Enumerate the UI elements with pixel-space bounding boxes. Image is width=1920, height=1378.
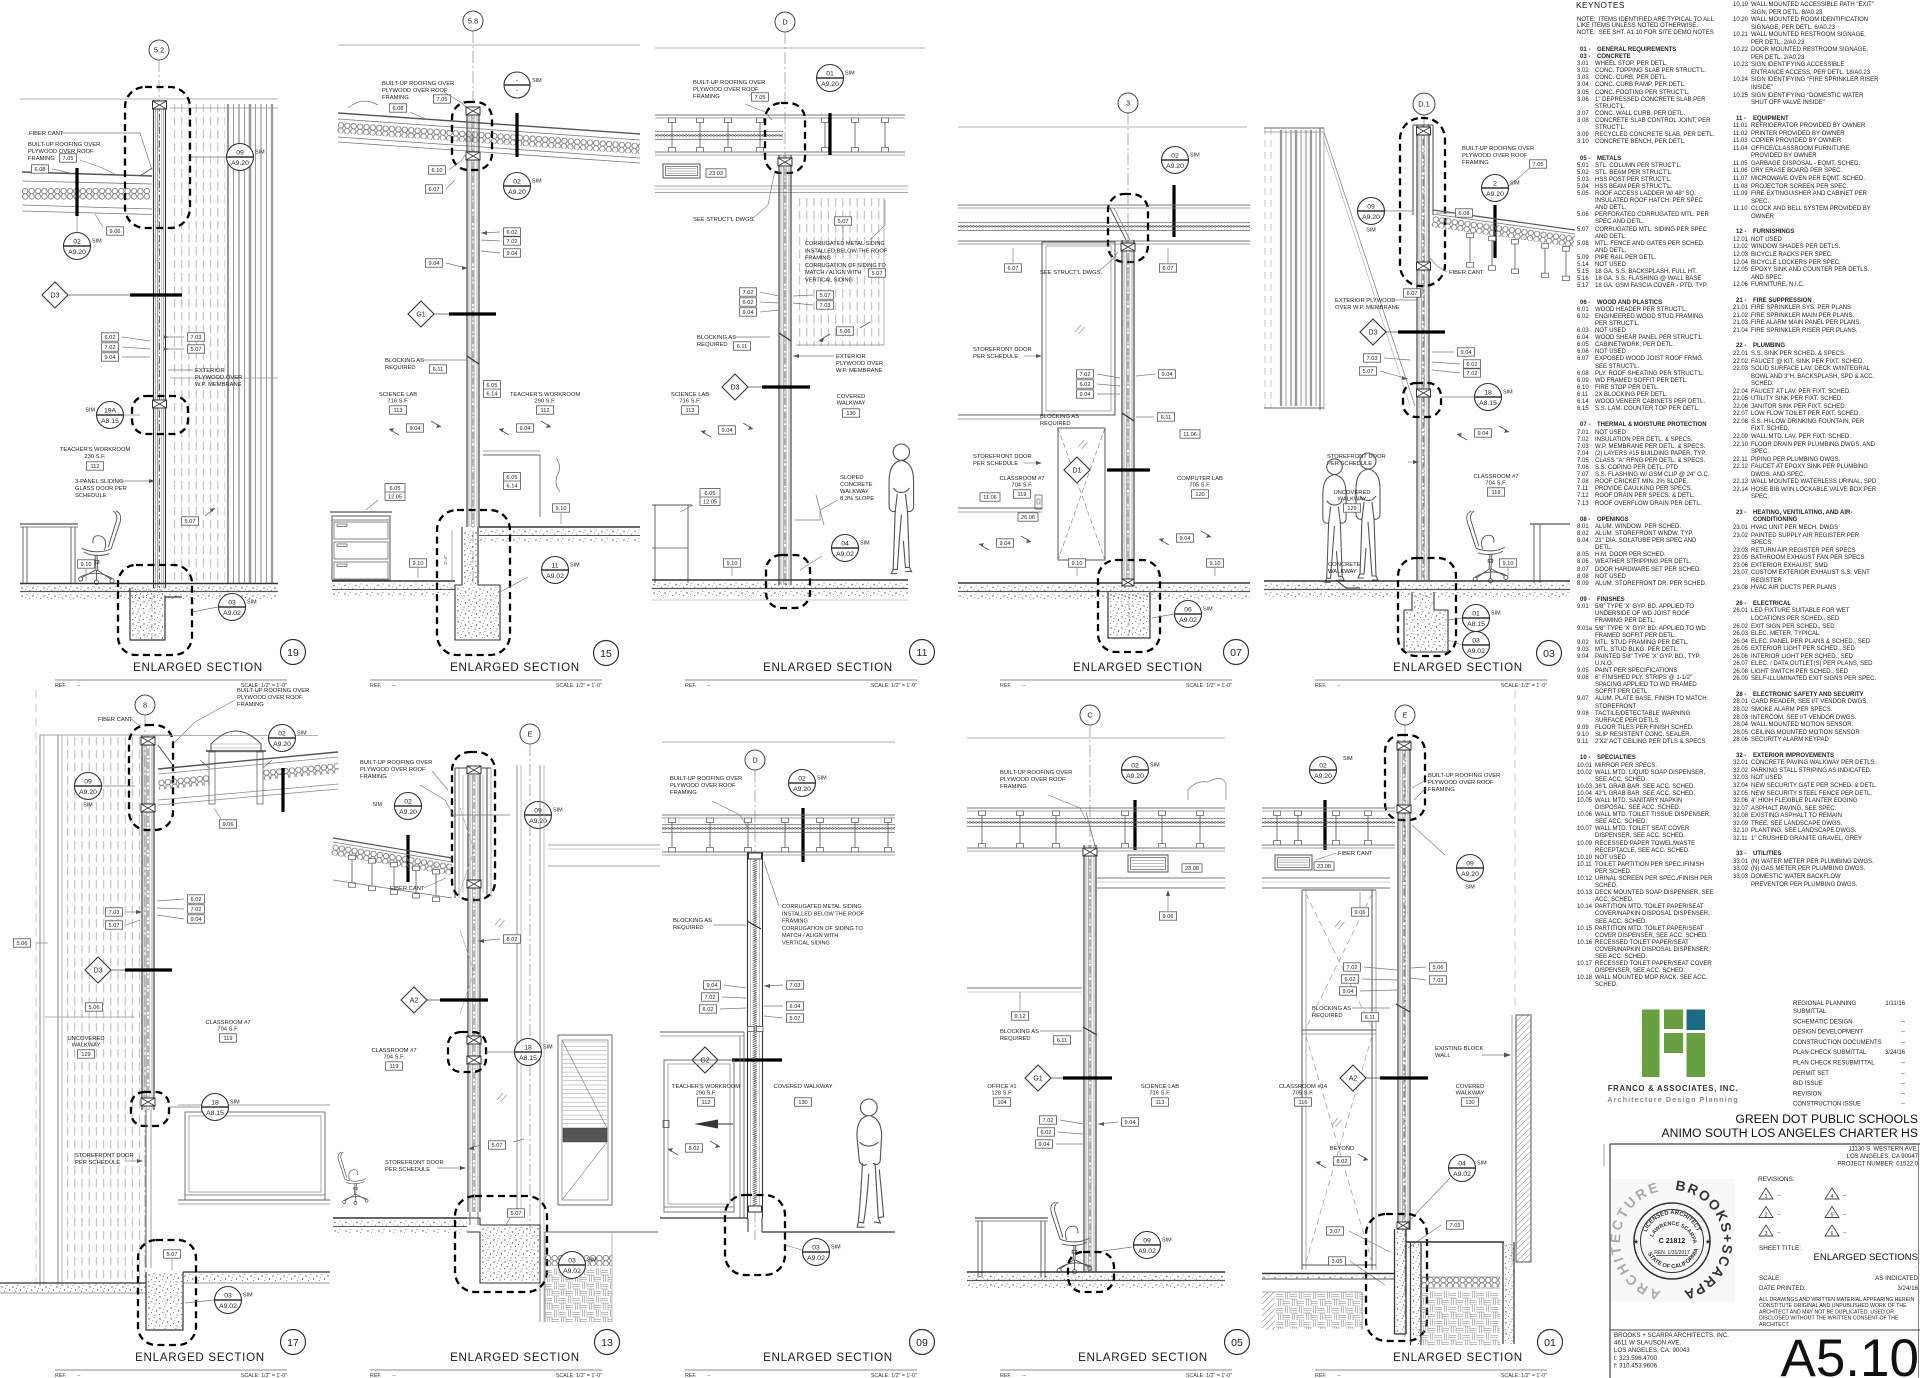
svg-text:ENLARGED SECTION: ENLARGED SECTION xyxy=(133,661,263,674)
svg-text:SIM: SIM xyxy=(831,1245,841,1251)
svg-text:--: -- xyxy=(1777,1193,1781,1199)
detail 17 beam tick xyxy=(281,768,284,812)
detail 01 section cut A2 xyxy=(1340,1065,1428,1091)
svg-text:UNCOVERED: UNCOVERED xyxy=(1333,490,1370,496)
detail 07 finish arrows xyxy=(979,531,1211,550)
detail 11 siding panel xyxy=(796,198,884,346)
svg-text:AS INDICATED: AS INDICATED xyxy=(1875,1275,1918,1282)
detail 05 mullion xyxy=(1083,812,1097,1272)
svg-text:9.06: 9.06 xyxy=(223,822,234,828)
detail 15 mullion xyxy=(466,107,480,527)
detail 01 block wall xyxy=(1512,1015,1531,1262)
svg-text:5.07: 5.07 xyxy=(185,519,196,525)
svg-text:ENLARGED SECTION: ENLARGED SECTION xyxy=(1393,1351,1523,1364)
svg-text:REQUIRED: REQUIRED xyxy=(1040,421,1071,427)
svg-text:01: 01 xyxy=(1472,610,1480,617)
svg-text:REQUIRED: REQUIRED xyxy=(1312,1013,1343,1019)
svg-text:INSTALLED BELOW THE ROOF: INSTALLED BELOW THE ROOF xyxy=(782,911,865,917)
detail 05 soffit xyxy=(1097,878,1225,888)
Franco & Associates logo xyxy=(1642,1010,1705,1078)
detail 17 door label xyxy=(75,1153,143,1166)
svg-text:--: -- xyxy=(1901,1102,1905,1108)
detail 17 right room xyxy=(178,1105,330,1204)
detail 19 callout 02/A9.20 xyxy=(64,216,103,260)
svg-text:5.07: 5.07 xyxy=(167,1252,178,1258)
svg-text:9.04: 9.04 xyxy=(707,983,718,989)
svg-text:130: 130 xyxy=(846,411,855,417)
svg-text:D.1: D.1 xyxy=(1418,100,1430,109)
detail 09 section cut G2 xyxy=(692,1047,782,1073)
svg-text:02: 02 xyxy=(1131,762,1139,769)
detail 19 room label xyxy=(60,447,131,470)
detail 03 grid bubble D.1 xyxy=(1413,93,1435,580)
svg-text:--: -- xyxy=(1901,1040,1905,1046)
detail 19 grid bubble 5.2 xyxy=(149,40,169,585)
detail 17 section cut D3 xyxy=(85,957,172,983)
detail 17 room label xyxy=(205,1020,250,1042)
svg-text:230 S.F.: 230 S.F. xyxy=(84,454,106,460)
detail 15 beam tick xyxy=(515,113,518,157)
detail 19 door label xyxy=(75,479,155,499)
svg-text:FRAMING: FRAMING xyxy=(28,156,55,162)
detail 17 footing dashed callout xyxy=(138,1240,196,1345)
svg-text:SHEET TITLE:: SHEET TITLE: xyxy=(1759,1245,1801,1252)
detail 11 room labels xyxy=(671,392,866,417)
svg-text:--: -- xyxy=(1901,1061,1905,1067)
svg-text:6.02: 6.02 xyxy=(1080,382,1091,388)
detail 15 roof assembly xyxy=(337,101,640,163)
detail 09 siding label xyxy=(764,862,865,947)
svg-text:INSTALLED BELOW THE ROOF: INSTALLED BELOW THE ROOF xyxy=(805,248,888,254)
svg-text:6.08: 6.08 xyxy=(35,167,46,173)
svg-text:A8.15: A8.15 xyxy=(1479,400,1497,407)
svg-text:5: 5 xyxy=(1831,1213,1834,1219)
detail 03 glazing diagonal xyxy=(1324,132,1415,406)
svg-text:705 S.F.: 705 S.F. xyxy=(1189,483,1211,489)
svg-text:W.P. MEMBRANE: W.P. MEMBRANE xyxy=(195,382,242,388)
detail 05 room labels xyxy=(987,1084,1179,1106)
detail 07 door label upper xyxy=(973,347,1042,360)
detail 13 callout 09/A9.20 xyxy=(452,802,563,829)
detail 09 box 8.02 xyxy=(668,1141,720,1155)
detail 03 title xyxy=(1315,641,1562,690)
detail 07 top line xyxy=(958,126,1247,128)
svg-text:BUILT-UP ROOFING OVER: BUILT-UP ROOFING OVER xyxy=(237,688,309,694)
svg-text:A9.02: A9.02 xyxy=(1453,1171,1471,1178)
revision triangles xyxy=(1758,1176,1847,1237)
svg-text:6.11: 6.11 xyxy=(433,367,443,373)
svg-text:SCALE: 1/2" = 1'-0": SCALE: 1/2" = 1'-0" xyxy=(1186,683,1232,689)
detail 17 walkway label xyxy=(67,1036,104,1058)
svg-text:119: 119 xyxy=(1018,492,1027,498)
svg-text:716 S.F.: 716 S.F. xyxy=(387,399,409,405)
detail 07 footing xyxy=(1108,592,1150,638)
detail 15 box 9.04 left xyxy=(426,259,469,270)
svg-text:5.07: 5.07 xyxy=(191,347,202,353)
detail 17 callout 09/A9.20 xyxy=(75,773,136,809)
svg-text:02: 02 xyxy=(798,775,806,782)
svg-text:9.04: 9.04 xyxy=(410,426,421,432)
svg-text:11: 11 xyxy=(551,562,558,569)
svg-text:7.03: 7.03 xyxy=(1450,1223,1461,1229)
svg-text:COMPUTER LAB: COMPUTER LAB xyxy=(1177,476,1223,482)
svg-text:MATCH / ALIGN WITH: MATCH / ALIGN WITH xyxy=(782,933,838,939)
svg-text:ENLARGED SECTION: ENLARGED SECTION xyxy=(763,661,893,674)
svg-text:104: 104 xyxy=(997,1100,1006,1106)
detail 07 boxes mid xyxy=(1077,370,1176,398)
svg-text:ENLARGED SECTION: ENLARGED SECTION xyxy=(1393,661,1523,674)
detail 01 roof deck xyxy=(1262,808,1395,848)
svg-text:9.06: 9.06 xyxy=(1355,910,1366,916)
svg-text:19A: 19A xyxy=(104,407,117,414)
svg-text:9.04: 9.04 xyxy=(1080,392,1091,398)
detail 15 room labels xyxy=(379,392,581,414)
svg-text:11.06: 11.06 xyxy=(983,495,997,501)
detail 01 floor left xyxy=(1262,1274,1394,1331)
svg-text:9.10: 9.10 xyxy=(1503,561,1514,567)
svg-text:BUILT-UP ROOFING OVER: BUILT-UP ROOFING OVER xyxy=(670,776,742,782)
svg-text:SIM: SIM xyxy=(92,239,102,245)
svg-text:PLAN CHECK SUBMITTAL: PLAN CHECK SUBMITTAL xyxy=(1793,1050,1867,1056)
svg-text:6.14: 6.14 xyxy=(507,483,518,489)
svg-text:5.07: 5.07 xyxy=(511,1211,522,1217)
svg-text:--: -- xyxy=(392,683,396,689)
detail 07 lower door xyxy=(1058,428,1105,560)
svg-text:WALKWAY: WALKWAY xyxy=(72,1043,101,1049)
svg-text:6: 6 xyxy=(1831,1231,1834,1237)
svg-text:REF.: REF. xyxy=(685,1373,696,1378)
detail 15 box 6.05/6.14 xyxy=(484,381,501,398)
svg-text:PLAN CHECK RESUBMITTAL: PLAN CHECK RESUBMITTAL xyxy=(1793,1061,1875,1067)
svg-text:SIM: SIM xyxy=(1491,611,1501,617)
svg-text:A9.02: A9.02 xyxy=(836,551,854,558)
detail 17 boxes left xyxy=(106,908,143,929)
svg-text:ARCHITECT.: ARCHITECT. xyxy=(1759,1322,1790,1328)
detail 17 title xyxy=(55,1330,306,1378)
detail 05 blocking label xyxy=(1000,1027,1097,1044)
svg-text:--: -- xyxy=(392,1373,396,1378)
svg-text:5.06: 5.06 xyxy=(17,941,28,947)
svg-text:MATCH / ALIGN WITH: MATCH / ALIGN WITH xyxy=(805,270,861,276)
svg-text:--: -- xyxy=(1914,1265,1918,1271)
svg-text:G1: G1 xyxy=(416,311,425,318)
svg-text:BID ISSUE: BID ISSUE xyxy=(1793,1081,1823,1087)
svg-text:A8.15: A8.15 xyxy=(101,418,119,425)
detail 03 callout 01/A8.15 xyxy=(1448,605,1501,632)
detail 11 callout 04/A9.02 xyxy=(800,535,870,571)
svg-text:11.06: 11.06 xyxy=(1183,432,1197,438)
svg-text:05: 05 xyxy=(1231,1337,1243,1349)
svg-text:129: 129 xyxy=(81,1052,90,1058)
svg-text:BLOCKING AS: BLOCKING AS xyxy=(1312,1006,1351,1012)
svg-text:06: 06 xyxy=(1184,606,1192,613)
detail 13 glass marks xyxy=(495,918,507,1102)
detail 09 floors xyxy=(660,1218,895,1232)
svg-text:-: - xyxy=(516,87,518,94)
detail 17 floor right xyxy=(183,1272,330,1283)
detail 05 box 9.12 xyxy=(1012,996,1029,1020)
svg-text:FRAMING: FRAMING xyxy=(1462,160,1489,166)
svg-text:2: 2 xyxy=(1493,180,1497,187)
detail 15 box 6.05/6.14 lower xyxy=(504,473,521,490)
svg-text:D: D xyxy=(752,756,757,765)
detail 01 callout 02/A9.20 xyxy=(1310,756,1354,850)
svg-text:PER SCHEDULE: PER SCHEDULE xyxy=(973,354,1018,360)
svg-text:FIBER CANT: FIBER CANT xyxy=(98,717,133,723)
detail 17 callout 02/A9.20 xyxy=(269,725,308,752)
svg-text:1/11/16: 1/11/16 xyxy=(1885,1001,1905,1007)
detail 01 beyond label xyxy=(1316,1146,1368,1168)
svg-text:D3: D3 xyxy=(51,292,60,299)
svg-text:REF.: REF. xyxy=(1000,1373,1011,1378)
svg-text:SIM: SIM xyxy=(1465,885,1475,891)
svg-text:9.04: 9.04 xyxy=(1039,1142,1050,1148)
svg-text:01: 01 xyxy=(826,70,834,77)
svg-text:A9.20: A9.20 xyxy=(68,249,86,256)
detail 15 section cut G1 xyxy=(408,301,496,327)
svg-text:REF.: REF. xyxy=(370,1373,381,1378)
svg-text:★: ★ xyxy=(1705,1238,1711,1246)
svg-text:A9.20: A9.20 xyxy=(1486,191,1504,198)
detail 19 footing xyxy=(130,588,182,640)
detail 11 soffit lines xyxy=(655,186,908,193)
svg-text:112: 112 xyxy=(702,1100,711,1106)
svg-text:--: -- xyxy=(1901,1030,1905,1036)
svg-text:REF.: REF. xyxy=(55,1373,66,1378)
svg-text:C 21812: C 21812 xyxy=(1659,1238,1686,1245)
svg-text:REF.: REF. xyxy=(370,683,381,689)
svg-text:BUILT-UP ROOFING OVER: BUILT-UP ROOFING OVER xyxy=(382,81,454,87)
detail 15 roofing label xyxy=(382,81,470,120)
detail 13 roofing label xyxy=(360,760,455,818)
detail 11 section cut D3 xyxy=(722,374,810,400)
svg-text:A9.02: A9.02 xyxy=(223,610,241,617)
svg-text:11: 11 xyxy=(917,647,928,659)
svg-text:A9.20: A9.20 xyxy=(1362,214,1380,221)
svg-text:A9.20: A9.20 xyxy=(231,160,249,167)
sheet title xyxy=(1759,1245,1918,1271)
svg-text:EXTERIOR: EXTERIOR xyxy=(836,354,866,360)
svg-text:SIM: SIM xyxy=(1477,1161,1487,1167)
detail 15 sim circle xyxy=(504,72,542,98)
svg-text:GREEN DOT PUBLIC SCHOOLS: GREEN DOT PUBLIC SCHOOLS xyxy=(1735,1112,1918,1126)
svg-text:112: 112 xyxy=(91,464,100,470)
svg-text:6.08: 6.08 xyxy=(1459,211,1470,217)
svg-text:BLOCKING AS: BLOCKING AS xyxy=(385,358,424,364)
detail 13 grid bubble E xyxy=(520,724,540,1230)
detail 01 blocking label xyxy=(1312,1004,1410,1021)
svg-text:6.05: 6.05 xyxy=(705,491,716,497)
svg-text:REVISIONS:: REVISIONS: xyxy=(1758,1176,1795,1183)
svg-text:09: 09 xyxy=(236,149,244,156)
svg-text:9.04: 9.04 xyxy=(1162,372,1173,378)
detail 19 box 5.07 walkway xyxy=(182,508,216,525)
svg-text:REF.: REF. xyxy=(685,683,696,689)
svg-text:5.2: 5.2 xyxy=(154,46,164,55)
detail 15 boxes right xyxy=(481,228,521,257)
svg-text:3: 3 xyxy=(1765,1231,1768,1237)
detail 05 grid bubble C xyxy=(1080,705,1100,1270)
svg-text:3-PANEL SLIDING: 3-PANEL SLIDING xyxy=(75,479,124,485)
detail 03 callout 2/A9.20 xyxy=(1482,175,1521,259)
svg-text:SIM: SIM xyxy=(532,179,542,185)
detail 13 right wall beyond xyxy=(517,765,660,1322)
svg-text:D3: D3 xyxy=(731,384,740,391)
detail 17 boxes right xyxy=(157,895,205,923)
detail 09 callout 03/A9.02 xyxy=(785,1239,841,1266)
detail 07 title xyxy=(1000,640,1249,690)
detail 07 boxes 6.07 xyxy=(1005,248,1177,272)
detail 09 mullion corr xyxy=(748,852,763,1218)
svg-text:9.06: 9.06 xyxy=(1163,914,1174,920)
detail 15 floor right xyxy=(479,527,640,542)
detail 11 roofing label xyxy=(693,80,772,120)
svg-text:--: -- xyxy=(1843,1193,1847,1199)
detail 01 title xyxy=(1315,1330,1563,1378)
svg-text:SCHEDULE: SCHEDULE xyxy=(75,493,107,499)
detail 17 box 5.06 left xyxy=(14,939,49,947)
svg-text:6.14: 6.14 xyxy=(487,391,498,397)
detail 13 callout 02/A9.20 xyxy=(372,793,421,883)
detail 15 title xyxy=(370,641,619,690)
svg-text:7.02: 7.02 xyxy=(705,995,716,1001)
svg-text:BLOCKING AS: BLOCKING AS xyxy=(697,335,736,341)
detail 17 top line xyxy=(145,735,318,737)
detail 19 mullion xyxy=(153,100,167,588)
svg-text:130: 130 xyxy=(1465,1100,1474,1106)
detail 07 callout 02/A9.20 xyxy=(1162,147,1201,238)
detail 07 callout 06/A9.02 xyxy=(1152,601,1213,628)
svg-text:9.04: 9.04 xyxy=(1478,431,1489,437)
svg-text:A9.02: A9.02 xyxy=(546,573,564,580)
detail 01 boxes xyxy=(1340,963,1447,995)
detail 11 top dashed callout xyxy=(765,103,805,173)
svg-text:--: -- xyxy=(1337,1373,1341,1378)
detail 13 right soil xyxy=(545,1232,658,1322)
svg-text:FRAMING: FRAMING xyxy=(382,95,409,101)
svg-text:CORRUGATED METAL SIDING: CORRUGATED METAL SIDING xyxy=(805,241,885,247)
svg-text:7.02: 7.02 xyxy=(507,239,518,245)
svg-text:FRAMING: FRAMING xyxy=(782,919,808,925)
detail 17 callout 03/A9.02 xyxy=(185,1287,253,1314)
svg-text:--: -- xyxy=(1901,1081,1905,1087)
svg-text:--: -- xyxy=(707,683,711,689)
svg-text:--: -- xyxy=(707,1373,711,1378)
svg-text:7.03: 7.03 xyxy=(109,910,120,916)
detail 17 roofing label xyxy=(172,688,309,745)
keynotes heading xyxy=(1576,0,1625,10)
detail 05 callout 09/A9.02 xyxy=(1096,1232,1172,1259)
svg-text:CORRUGATION OF SIDING TO: CORRUGATION OF SIDING TO xyxy=(782,926,863,932)
detail 19 fiber cant label xyxy=(29,131,152,170)
svg-text:3.07: 3.07 xyxy=(1330,1229,1341,1235)
svg-text:12.05: 12.05 xyxy=(703,499,717,505)
detail 03 box 9.10 xyxy=(1500,559,1517,578)
detail 15 floor left xyxy=(332,581,455,596)
title block right border xyxy=(1918,1144,1920,1378)
svg-text:SIM: SIM xyxy=(817,776,827,782)
detail 19 keynote boxes right xyxy=(164,333,205,353)
detail 11 roof deck xyxy=(655,115,905,155)
detail 11 finish arrow xyxy=(701,423,753,437)
detail 19 beam tick xyxy=(75,168,78,216)
svg-text:--: -- xyxy=(77,1373,81,1378)
submittal schedule xyxy=(1793,1001,1906,1108)
svg-text:03: 03 xyxy=(568,1257,576,1264)
svg-text:6.02: 6.02 xyxy=(1467,362,1478,368)
detail 03 mid dashed callout xyxy=(1403,383,1441,417)
svg-text:SIM: SIM xyxy=(372,802,382,808)
detail 15 grid bubble 5.8 xyxy=(463,11,483,583)
detail 17 grid bubble 8 xyxy=(135,695,155,1278)
svg-text:6.07: 6.07 xyxy=(1407,291,1418,297)
svg-text:9.04: 9.04 xyxy=(1125,1120,1136,1126)
svg-text:A2: A2 xyxy=(410,997,419,1004)
svg-text:BLOCKING AS: BLOCKING AS xyxy=(1040,414,1079,420)
svg-text:SEE STRUCT'L DWGS.: SEE STRUCT'L DWGS. xyxy=(693,217,755,223)
detail 11 louver xyxy=(663,164,726,178)
svg-text:A9.02: A9.02 xyxy=(563,1268,581,1275)
detail 11 siding label xyxy=(805,200,888,284)
svg-text:113: 113 xyxy=(1156,1100,1165,1106)
svg-text:PER SCHEDULE: PER SCHEDULE xyxy=(75,1160,120,1166)
svg-text:7.03: 7.03 xyxy=(790,983,801,989)
detail 11 box 6.05/12.05 xyxy=(680,489,720,512)
svg-text:2: 2 xyxy=(1765,1213,1768,1219)
svg-text:FIBER CANT: FIBER CANT xyxy=(390,886,425,892)
svg-text:9.04: 9.04 xyxy=(1461,350,1472,356)
detail 13 window elevation xyxy=(558,1035,612,1205)
svg-text:SIM: SIM xyxy=(860,541,870,547)
svg-text:A9.20: A9.20 xyxy=(508,189,526,196)
svg-text:7.03: 7.03 xyxy=(1433,978,1444,984)
svg-text:SCALE: 1/2" = 1'-0": SCALE: 1/2" = 1'-0" xyxy=(1186,1373,1232,1378)
detail 17 roof dome xyxy=(200,731,272,804)
svg-text:129: 129 xyxy=(1347,506,1356,512)
detail 09 callout 02/A9.20 xyxy=(789,770,828,863)
svg-text:SIM: SIM xyxy=(83,803,93,809)
svg-text:6.02: 6.02 xyxy=(1345,977,1356,983)
svg-text:PERMIT SET: PERMIT SET xyxy=(1793,1071,1829,1077)
detail 17 siding hatch xyxy=(45,737,140,1285)
svg-text:CONCRETE: CONCRETE xyxy=(1328,562,1361,568)
svg-text:5.07: 5.07 xyxy=(492,1143,503,1149)
svg-text:A8.15: A8.15 xyxy=(519,1055,537,1062)
svg-text:SIM: SIM xyxy=(587,1258,597,1264)
svg-text:15: 15 xyxy=(600,648,612,660)
detail 09 top line xyxy=(662,741,895,743)
detail 11 plywood label xyxy=(793,354,883,374)
svg-text:04: 04 xyxy=(1458,1160,1466,1167)
svg-text:PLYWOOD OVER: PLYWOOD OVER xyxy=(836,361,883,367)
detail 13 fiber cant label xyxy=(390,878,446,892)
detail 15 blocking label xyxy=(385,356,479,373)
svg-text:6.02: 6.02 xyxy=(191,897,202,903)
keynotes general note xyxy=(1577,17,1719,36)
detail 03 box 6.07 xyxy=(1404,289,1421,297)
project name xyxy=(1662,1112,1918,1140)
detail 07 struct note xyxy=(1040,252,1118,276)
detail 19 desk xyxy=(20,524,78,584)
svg-text:ENLARGED SECTION: ENLARGED SECTION xyxy=(135,1351,265,1364)
svg-text:A9.02: A9.02 xyxy=(219,1303,237,1310)
svg-text:7.05: 7.05 xyxy=(755,95,766,101)
detail 17 mid dashed callout xyxy=(131,1092,169,1126)
detail 17 left wall lines xyxy=(40,735,172,1285)
svg-text:6.04: 6.04 xyxy=(790,1004,801,1010)
svg-text:BUILT-UP ROOFING OVER: BUILT-UP ROOFING OVER xyxy=(1462,146,1534,152)
detail 01 storefront left xyxy=(1302,890,1376,1270)
